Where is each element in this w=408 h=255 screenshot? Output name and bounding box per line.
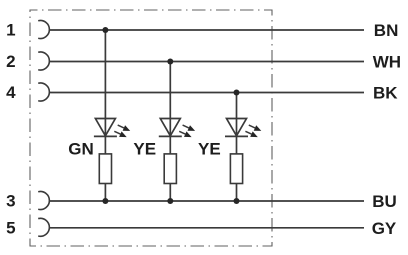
wire pin 3 to BU (LED return bus) bbox=[49, 200, 364, 202]
connector housing boundary (dash-dot box) bbox=[30, 10, 272, 246]
LED YE (branch 3) bbox=[225, 119, 255, 137]
wire pin 2 to WH bbox=[49, 61, 364, 63]
svg-text:YE: YE bbox=[133, 140, 156, 159]
svg-text:BK: BK bbox=[373, 84, 398, 103]
resistor R3 bbox=[230, 154, 242, 184]
wire pin 1 to BN bbox=[49, 29, 364, 31]
svg-text:BN: BN bbox=[374, 21, 399, 40]
svg-text:2: 2 bbox=[6, 52, 15, 71]
wire pin 4 to BK bbox=[49, 92, 364, 94]
junction dot branch3/pin3 bus bbox=[234, 198, 240, 204]
junction dot branch2/pin3 bus bbox=[167, 198, 173, 204]
pin 2 socket contact bbox=[38, 52, 49, 70]
junction dot branch3/pin4 bbox=[234, 90, 240, 96]
LED YE (branch 3) emission arrowheads bbox=[250, 125, 261, 137]
svg-text:3: 3 bbox=[6, 192, 15, 211]
resistor R1 bbox=[99, 154, 111, 184]
svg-text:5: 5 bbox=[6, 218, 15, 237]
svg-text:4: 4 bbox=[6, 83, 16, 102]
pin 3 socket contact bbox=[38, 191, 49, 209]
svg-text:1: 1 bbox=[6, 21, 15, 40]
branch 2 vertical wire bbox=[169, 62, 171, 202]
LED GN (branch 1) bbox=[94, 119, 124, 137]
svg-text:BU: BU bbox=[372, 192, 397, 211]
junction dot branch1/pin1 bbox=[102, 27, 108, 33]
svg-text:GN: GN bbox=[68, 140, 94, 159]
svg-text:WH: WH bbox=[373, 53, 401, 72]
branch 3 vertical wire bbox=[236, 93, 238, 202]
svg-text:YE: YE bbox=[198, 140, 221, 159]
svg-text:GY: GY bbox=[372, 219, 397, 238]
junction dot branch1/pin3 bus bbox=[102, 198, 108, 204]
pin 4 socket contact bbox=[38, 83, 49, 101]
pin 1 socket contact bbox=[38, 21, 49, 39]
LED GN (branch 1) emission arrowheads bbox=[119, 125, 130, 137]
branch 1 vertical wire bbox=[104, 30, 106, 201]
LED YE (branch 2) bbox=[159, 119, 189, 137]
resistor R2 bbox=[164, 154, 176, 184]
wire pin 5 to GY bbox=[49, 227, 364, 229]
pin 5 socket contact bbox=[38, 218, 49, 236]
junction dot branch2/pin2 bbox=[167, 59, 173, 65]
LED YE (branch 2) emission arrowheads bbox=[184, 125, 195, 137]
